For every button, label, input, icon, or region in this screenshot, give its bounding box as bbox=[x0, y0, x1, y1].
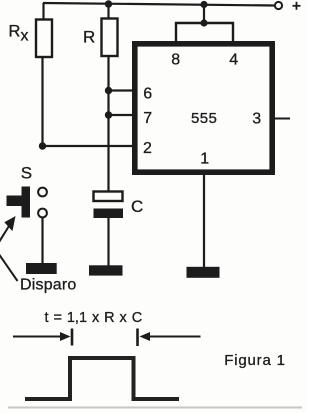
arrow: trigger pointer head bbox=[6, 218, 15, 230]
waveform: output pulse bbox=[25, 358, 179, 399]
wire: Rx bottom lead bbox=[41, 57, 43, 146]
node: bridge link bottom bbox=[200, 19, 207, 26]
capacitor C bottom plate bbox=[94, 209, 124, 219]
node: R top junction bbox=[105, 0, 112, 7]
pin label 3 bbox=[252, 110, 261, 127]
terminal: +V open circle bbox=[275, 2, 282, 9]
wire: pin 1 to ground bbox=[203, 172, 205, 268]
IC 555 body bbox=[135, 44, 272, 172]
dimension arrow left bbox=[13, 332, 71, 341]
switch S lower contact bbox=[38, 209, 47, 218]
svg-text:Figura 1: Figura 1 bbox=[224, 352, 285, 369]
dimension arrow right bbox=[140, 332, 201, 341]
label 555 bbox=[191, 110, 217, 127]
dimension tick right bbox=[136, 329, 139, 347]
label Rx bbox=[9, 23, 29, 45]
switch S pushbutton plunger bbox=[7, 196, 22, 207]
capacitor C top plate bbox=[94, 192, 123, 202]
label: + supply bbox=[293, 2, 301, 10]
svg-text:R: R bbox=[9, 23, 21, 41]
wire: pin 7 bbox=[109, 114, 135, 116]
dimension tick left bbox=[71, 329, 74, 346]
svg-text:6: 6 bbox=[143, 85, 152, 102]
wire: Rx top lead bbox=[42, 3, 44, 20]
wire: capacitor bottom lead bbox=[107, 218, 109, 267]
pin label 4 bbox=[229, 51, 238, 68]
wire: pin 6 bbox=[109, 89, 135, 91]
arrow: trigger pointer line upper segment bbox=[0, 226, 9, 249]
switch S upper contact bbox=[38, 188, 47, 197]
node: pin7 junction bbox=[105, 111, 112, 118]
resistor R bbox=[102, 19, 118, 57]
wire: pin8-pin4 bridge bbox=[176, 23, 233, 43]
label Figura 1 bbox=[224, 352, 285, 369]
svg-text:3: 3 bbox=[252, 110, 261, 127]
svg-text:7: 7 bbox=[143, 110, 152, 127]
pin label 1 bbox=[200, 151, 209, 168]
ground: capacitor bbox=[89, 265, 123, 275]
node: pin6 junction bbox=[105, 87, 112, 94]
node: rail link top bbox=[200, 1, 207, 8]
pin label 8 bbox=[171, 51, 180, 68]
pin label 6 bbox=[143, 85, 152, 102]
svg-text:1: 1 bbox=[200, 151, 209, 168]
wire: +V top rail bbox=[43, 3, 275, 6]
svg-text:4: 4 bbox=[229, 51, 238, 68]
label C bbox=[131, 197, 143, 216]
svg-text:S: S bbox=[21, 163, 32, 182]
label R bbox=[83, 28, 95, 47]
scan artifact: faint bottom streak bbox=[8, 407, 302, 409]
label Disparo bbox=[20, 277, 77, 294]
label formula t = 1,1 x R x C bbox=[45, 310, 143, 326]
svg-text:R: R bbox=[83, 28, 95, 47]
wire: R bottom lead down to capacitor bbox=[107, 56, 109, 192]
resistor Rx bbox=[36, 20, 52, 58]
pin label 7 bbox=[143, 110, 152, 127]
svg-text:x: x bbox=[21, 28, 29, 45]
svg-text:2: 2 bbox=[143, 140, 152, 157]
svg-text:t = 1,1 x R x C: t = 1,1 x R x C bbox=[45, 310, 143, 326]
switch S pushbutton bar bbox=[22, 187, 31, 218]
label S bbox=[21, 163, 32, 182]
wire: switch lower lead bbox=[41, 218, 43, 266]
svg-text:C: C bbox=[131, 197, 143, 216]
pin label 2 bbox=[143, 140, 152, 157]
ground: switch bbox=[26, 263, 57, 274]
svg-text:8: 8 bbox=[171, 51, 180, 68]
wire: R top lead bbox=[107, 4, 109, 19]
wire: pin 2 bbox=[43, 145, 135, 147]
svg-text:555: 555 bbox=[191, 110, 217, 127]
svg-text:Disparo: Disparo bbox=[20, 277, 77, 294]
node: pin2 / Rx / switch junction bbox=[39, 142, 46, 149]
wire: rail to bridge link bbox=[203, 5, 205, 24]
ground: pin 1 bbox=[187, 267, 220, 278]
arrow: trigger pointer line lower segment bbox=[0, 249, 18, 282]
wire: pin 3 stub bbox=[275, 118, 290, 120]
